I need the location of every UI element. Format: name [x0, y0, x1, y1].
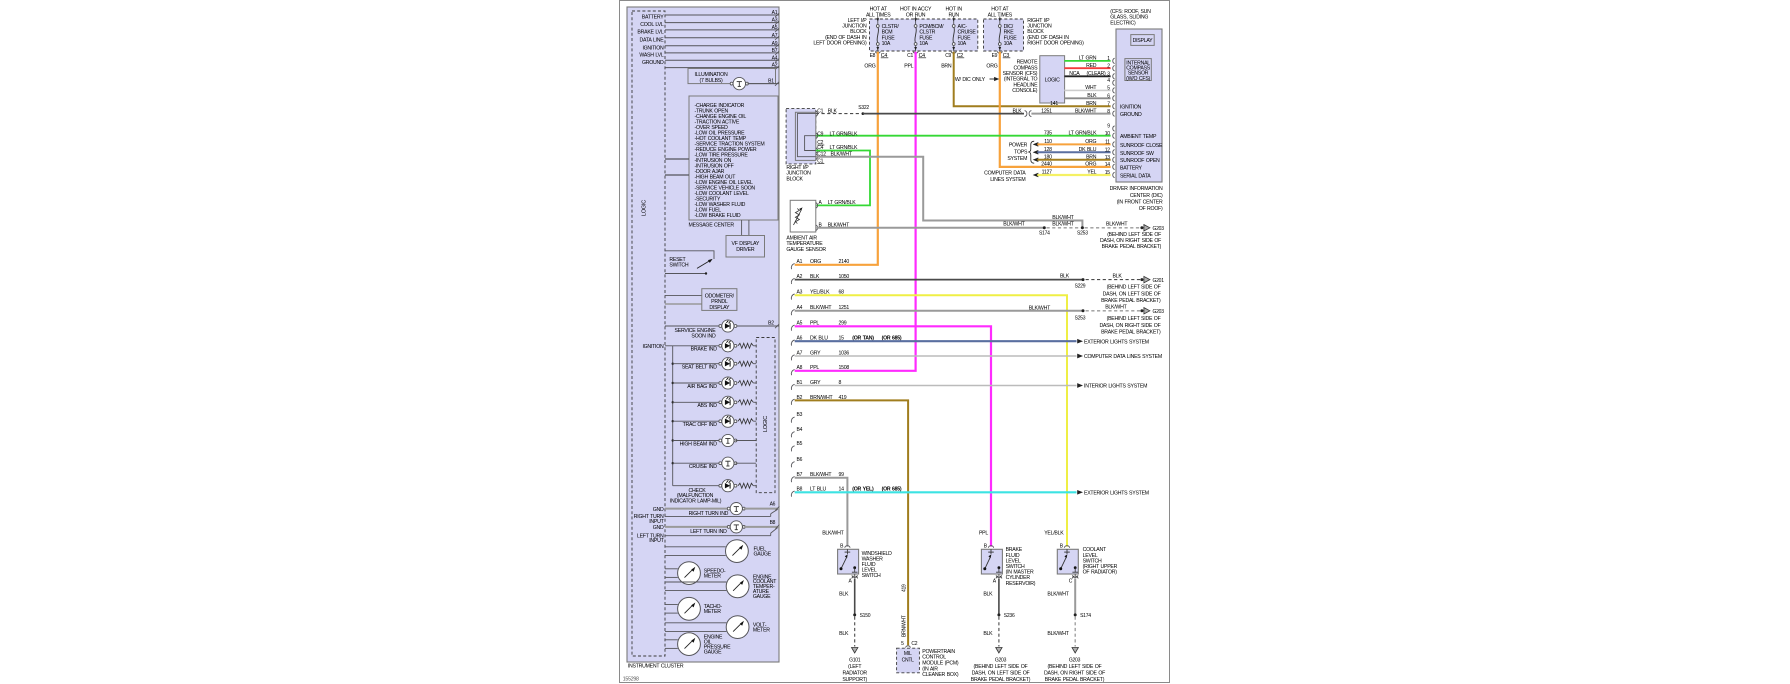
svg-text:BLK: BLK [828, 108, 838, 114]
wire BLKWHT coolant switch to S174 G203 [1047, 578, 1091, 653]
left ip junction block box [870, 19, 978, 51]
label driver information center [1110, 186, 1163, 212]
wire BLKWHT A4 to S253 G203 [791, 304, 1164, 321]
label ORG fuse4 [986, 64, 997, 70]
LED brake ind [673, 340, 757, 353]
label hot at all times left [866, 7, 891, 19]
svg-text:DATA LINE: DATA LINE [640, 37, 665, 43]
labels DIC internal nets [1120, 105, 1163, 180]
svg-text:LT GRN/BLK: LT GRN/BLK [828, 200, 857, 206]
connector pin B5 [791, 441, 802, 452]
svg-text:DASH, ON LEFT SIDE OF: DASH, ON LEFT SIDE OF [972, 671, 1030, 677]
labels right ip junction block pins [817, 108, 858, 164]
label instrument cluster [628, 664, 684, 670]
svg-text:BLK: BLK [1012, 109, 1022, 115]
svg-text:BRAKE PEDAL BRACKET): BRAKE PEDAL BRACKET) [971, 677, 1031, 683]
wire cluster pin A1 [665, 10, 779, 17]
svg-text:B5: B5 [797, 441, 803, 447]
label G101 address [842, 657, 867, 683]
svg-text:INDICATOR LAMP-MIL): INDICATOR LAMP-MIL) [670, 499, 722, 505]
svg-text:B7: B7 [772, 48, 778, 54]
wire cluster pin A2 [665, 63, 779, 70]
label computer data lines system top [984, 171, 1026, 184]
svg-text:S253: S253 [1077, 231, 1088, 237]
svg-text:BLK/WHT: BLK/WHT [1052, 215, 1074, 221]
label LOGIC (ind) [763, 416, 769, 432]
LED seat belt ind [673, 358, 757, 371]
svg-text:GAUGE: GAUGE [704, 649, 722, 655]
svg-text:HIGH BEAM IND: HIGH BEAM IND [680, 441, 718, 447]
svg-text:(IN FRONT CENTER: (IN FRONT CENTER [1117, 199, 1163, 205]
wire PPL fuse2 to A8 [795, 52, 916, 371]
svg-text:GAUGE: GAUGE [754, 551, 772, 557]
wire RED logic pin2 [1064, 63, 1110, 69]
svg-text:BLK: BLK [1113, 273, 1123, 279]
wire cluster pin A3 [665, 18, 779, 25]
svg-text:INSTRUMENT CLUSTER: INSTRUMENT CLUSTER [628, 664, 684, 670]
svg-text:TOPS: TOPS [1014, 149, 1028, 155]
wire WHT logic pin5 [1064, 85, 1110, 91]
svg-text:COMPUTER DATA LINES SYSTEM: COMPUTER DATA LINES SYSTEM [1084, 354, 1162, 360]
svg-text:BRAKE PEDAL BRACKET): BRAKE PEDAL BRACKET) [1101, 329, 1161, 335]
svg-text:10A: 10A [958, 41, 967, 47]
svg-text:SUNROOF CLOSE: SUNROOF CLOSE [1120, 143, 1163, 149]
svg-text:S229: S229 [1075, 284, 1086, 290]
logic box U1 [1040, 56, 1065, 103]
svg-text:RADIATOR: RADIATOR [843, 671, 868, 677]
svg-text:SUNROOF SW: SUNROOF SW [1120, 151, 1154, 157]
coolant level switch [1057, 544, 1117, 585]
svg-text:DRIVER INFORMATION: DRIVER INFORMATION [1110, 186, 1163, 192]
gauge speedo- [665, 562, 726, 585]
svg-text:LOGIC: LOGIC [642, 200, 648, 216]
wire cluster pin A4 [665, 55, 779, 62]
svg-text:MIL: MIL [904, 651, 912, 657]
fuse A/C-CRUISE 10A [945, 17, 976, 59]
svg-text:B8: B8 [770, 520, 776, 526]
wire LT GRNBLK 735 to pin10 [816, 130, 1111, 136]
label PPL above brake switch [979, 531, 988, 537]
svg-text:G201: G201 [1153, 278, 1165, 284]
wire LT BLU B8 exterior lights [791, 487, 1149, 497]
gauge volt- [665, 616, 770, 639]
svg-text:CONSOLE): CONSOLE) [1012, 88, 1038, 94]
svg-text:10A: 10A [1004, 41, 1013, 47]
svg-text:G203: G203 [1153, 226, 1165, 232]
svg-text:BLK: BLK [983, 631, 993, 637]
svg-text:SUPPORT): SUPPORT) [842, 677, 867, 683]
vf display driver box [726, 220, 765, 257]
sheet number [623, 677, 639, 683]
bulb illumination [730, 77, 779, 89]
svg-text:ORG: ORG [1085, 162, 1096, 168]
LED service engine soon ind [665, 320, 779, 340]
svg-text:METER: METER [753, 627, 770, 633]
wire cluster pin B7 [665, 48, 779, 55]
bulb high beam ind [673, 434, 757, 447]
svg-text:LT GRN/BLK: LT GRN/BLK [1069, 130, 1098, 136]
LED trac off ind [673, 415, 757, 428]
svg-text:BLK/WHT: BLK/WHT [1105, 304, 1127, 310]
svg-text:BRN/WHT: BRN/WHT [901, 615, 907, 637]
gauge tacho- [665, 597, 722, 620]
svg-text:12: 12 [1105, 148, 1111, 154]
svg-text:YEL/BLK: YEL/BLK [1044, 531, 1064, 537]
wire BRN fuse3 to DIC pin7 [954, 52, 1111, 106]
svg-text:CENTER (DIC): CENTER (DIC) [1130, 193, 1163, 199]
svg-text:BLK/WHT: BLK/WHT [822, 531, 844, 537]
wire DK BLU A6 exterior lights [791, 336, 1149, 346]
wire GRY B1 interior lights [791, 380, 1147, 390]
wire LT GRN logic pin1 [1064, 56, 1110, 62]
svg-text:RIGHT DOOR OPENING): RIGHT DOOR OPENING) [1027, 41, 1084, 47]
svg-text:PPL: PPL [904, 64, 913, 70]
svg-text:BRAKE PEDAL BRACKET): BRAKE PEDAL BRACKET) [1102, 244, 1162, 250]
svg-text:DRIVER: DRIVER [736, 247, 755, 253]
svg-text:1127: 1127 [1042, 170, 1053, 176]
label hot in accy or run [900, 7, 932, 19]
svg-text:GROUND: GROUND [642, 60, 664, 66]
wire BLK washer to S150 G101 [839, 578, 871, 653]
svg-text:LT GRN: LT GRN [1079, 56, 1097, 62]
svg-text:W/ DIC ONLY: W/ DIC ONLY [955, 77, 986, 83]
svg-text:BLK/WHT: BLK/WHT [1052, 221, 1074, 227]
svg-text:GAUGE SENSOR: GAUGE SENSOR [786, 247, 826, 253]
brake fluid level switch [981, 544, 1035, 587]
logic dashed box [632, 11, 665, 656]
svg-text:ELECTRIC): ELECTRIC) [1110, 20, 1136, 26]
svg-text:BLK: BLK [839, 631, 849, 637]
wire BLKWHT sensor B to S174 S253 G203 [817, 221, 1165, 236]
wire cluster pin A5 [665, 25, 779, 32]
svg-text:BRN: BRN [941, 64, 952, 70]
svg-text:NCA: NCA [1069, 71, 1080, 77]
svg-text:A6: A6 [770, 502, 776, 508]
svg-text:SYSTEM: SYSTEM [1007, 156, 1027, 162]
svg-text:A8: A8 [797, 365, 803, 371]
label right ip junction block 2 [786, 165, 811, 182]
svg-text:AMBIENT TEMP: AMBIENT TEMP [1120, 134, 1157, 140]
svg-text:2140: 2140 [839, 259, 850, 265]
svg-text:METER: METER [704, 573, 721, 579]
wire NCA logic pin3 [1064, 71, 1110, 77]
svg-text:10A: 10A [882, 41, 891, 47]
gauge engine [665, 574, 777, 600]
svg-text:BLOCK: BLOCK [786, 176, 803, 182]
svg-text:S150: S150 [860, 613, 871, 619]
wire YEL 1127 pin15 [1033, 170, 1111, 178]
wire PPL A5 to brake fluid level switch [791, 321, 991, 547]
svg-text:G203: G203 [1153, 309, 1165, 315]
svg-text:LINES SYSTEM: LINES SYSTEM [990, 177, 1025, 183]
wire GRY A7 computer data lines [791, 350, 1162, 360]
label remote compass sensor [1003, 60, 1038, 95]
wire ignition bus [642, 344, 673, 486]
svg-text:SOON IND: SOON IND [691, 334, 716, 340]
svg-text:-LOW BRAKE FLUID: -LOW BRAKE FLUID [695, 213, 741, 219]
svg-text:DK BLU: DK BLU [1079, 147, 1097, 153]
wire ORG fuse4 to DIC pin14 [1000, 52, 1111, 167]
svg-text:METER: METER [704, 609, 721, 615]
svg-text:BLK: BLK [1060, 274, 1070, 280]
svg-text:LT GRN/BLK: LT GRN/BLK [830, 131, 859, 137]
svg-text:WHT: WHT [1085, 85, 1097, 91]
svg-text:LOGIC: LOGIC [763, 416, 769, 432]
svg-text:A4: A4 [772, 55, 778, 61]
wire BLK S322 to pin8 [816, 105, 1111, 117]
svg-text:DASH, ON RIGHT SIDE OF: DASH, ON RIGHT SIDE OF [1099, 323, 1160, 329]
svg-text:EXTERIOR LIGHTS SYSTEM: EXTERIOR LIGHTS SYSTEM [1084, 490, 1149, 496]
reset switch [665, 251, 714, 275]
svg-text:BLK/WHT: BLK/WHT [1047, 631, 1069, 637]
gauge fuel [665, 540, 772, 563]
label ORG fuse1 [864, 64, 875, 70]
svg-text:(7 BULBS): (7 BULBS) [700, 78, 724, 84]
LED check MIL ind [670, 480, 756, 505]
bulb left turn ind [637, 520, 779, 544]
svg-text:(BEHIND LEFT SIDE OF: (BEHIND LEFT SIDE OF [1107, 285, 1161, 291]
svg-text:A1: A1 [797, 259, 803, 265]
svg-text:INPUT: INPUT [649, 538, 664, 544]
svg-text:BLK: BLK [1087, 93, 1097, 99]
svg-text:GND: GND [653, 507, 664, 513]
svg-text:IGNITION: IGNITION [642, 344, 664, 350]
LED abs ind [673, 396, 757, 409]
svg-text:IGNITION: IGNITION [1120, 105, 1142, 111]
svg-text:DASH, ON LEFT SIDE OF: DASH, ON LEFT SIDE OF [1103, 291, 1161, 297]
svg-text:B2: B2 [768, 320, 774, 326]
wire cluster pin A9 [665, 41, 779, 48]
svg-text:(CLEAR): (CLEAR) [1086, 71, 1106, 77]
svg-text:BLK: BLK [839, 592, 849, 598]
label G203 address left [971, 657, 1031, 683]
label 1251 BLKWHT pin8 [1041, 108, 1097, 114]
label hot at all times right [988, 7, 1013, 19]
svg-text:SUNROOF OPEN: SUNROOF OPEN [1120, 158, 1160, 164]
wire YELBLK A3 to coolant level switch [791, 290, 1067, 547]
svg-text:CRUISE IND: CRUISE IND [689, 464, 717, 470]
wire BLK A2 to S229 G201 [791, 273, 1164, 289]
svg-text:INPUT: INPUT [649, 519, 664, 525]
powertrain control module PCM [897, 641, 920, 673]
svg-text:SWITCH: SWITCH [669, 262, 688, 268]
svg-text:ORG: ORG [1085, 139, 1096, 145]
label LOGIC (cluster) [642, 200, 648, 216]
svg-text:TRAC OFF IND: TRAC OFF IND [683, 422, 718, 428]
svg-text:MESSAGE CENTER: MESSAGE CENTER [689, 223, 735, 229]
svg-text:GROUND: GROUND [1120, 112, 1142, 118]
label ambient air temperature gauge sensor [786, 235, 826, 252]
svg-text:BRAKE PEDAL BRACKET): BRAKE PEDAL BRACKET) [1101, 298, 1161, 304]
labels cluster left pins [637, 15, 664, 66]
svg-text:B1: B1 [768, 79, 774, 85]
label G203 address right [1044, 657, 1105, 683]
fuse PCM/BCM/CLSTR 10A [907, 17, 944, 59]
svg-text:IGNITION: IGNITION [642, 45, 664, 51]
svg-text:GND: GND [653, 525, 664, 531]
svg-text:B3: B3 [797, 412, 803, 418]
svg-text:ORG: ORG [986, 64, 997, 70]
connector pin B3 [791, 412, 802, 423]
svg-text:BLK/WHT: BLK/WHT [1047, 592, 1069, 598]
svg-text:BRAKE LVL: BRAKE LVL [637, 30, 663, 36]
svg-text:PPL: PPL [979, 531, 988, 537]
wire message center stubs [665, 159, 689, 175]
internal compass sensor box [1125, 59, 1151, 82]
driver information center box [1116, 29, 1162, 182]
svg-text:15: 15 [1105, 170, 1111, 176]
svg-text:14: 14 [1105, 162, 1111, 168]
svg-text:BRAKE IND: BRAKE IND [691, 347, 718, 353]
svg-text:10: 10 [1105, 131, 1111, 137]
wire BLK logic pin6 [1064, 93, 1110, 99]
svg-text:C1: C1 [907, 53, 913, 59]
svg-text:BLK/WHT: BLK/WHT [1029, 305, 1051, 311]
svg-text:110: 110 [1044, 139, 1052, 145]
svg-text:RED: RED [1086, 63, 1097, 69]
label cfs roof [1110, 9, 1151, 26]
label w dic only [955, 77, 999, 83]
svg-text:A1: A1 [772, 10, 778, 16]
svg-text:2440: 2440 [1041, 162, 1052, 168]
svg-text:POWER: POWER [1009, 142, 1028, 148]
svg-text:DASH, ON RIGHT SIDE OF: DASH, ON RIGHT SIDE OF [1044, 671, 1105, 677]
svg-text:G203: G203 [995, 657, 1007, 663]
instrument cluster box [627, 7, 779, 662]
right ip junction block box (fuse) [984, 19, 1024, 51]
svg-text:INTERIOR LIGHTS SYSTEM: INTERIOR LIGHTS SYSTEM [1084, 384, 1147, 390]
svg-text:C9: C9 [945, 53, 951, 59]
svg-text:S236: S236 [1004, 613, 1015, 619]
svg-text:C2: C2 [911, 641, 917, 647]
connector pin B6 [791, 457, 802, 468]
label power tops system [1007, 141, 1034, 163]
svg-text:A9: A9 [772, 41, 778, 47]
svg-text:B6: B6 [797, 457, 803, 463]
label right ip junction block [1027, 18, 1084, 47]
DIC pin arcs and numbers [1105, 56, 1115, 178]
illumination box [688, 69, 776, 84]
svg-text:BATTERY: BATTERY [642, 15, 664, 21]
svg-text:BLK/WHT: BLK/WHT [1106, 221, 1128, 227]
svg-text:GAUGE: GAUGE [753, 594, 771, 600]
svg-text:A2: A2 [772, 63, 778, 69]
svg-text:BRN: BRN [1086, 154, 1097, 160]
wire PPL A8 to fuse2 [791, 365, 849, 375]
svg-text:COOL LVL: COOL LVL [640, 22, 664, 28]
label G201 address [1101, 285, 1161, 304]
label 2440 ORG pin14 [1041, 162, 1096, 168]
svg-text:B4: B4 [797, 427, 803, 433]
svg-text:S253: S253 [1075, 315, 1086, 321]
ambient air temperature gauge sensor [790, 200, 856, 232]
wire ORG fuse1 to A1 [795, 52, 878, 265]
svg-text:OF RADIATOR): OF RADIATOR) [1083, 570, 1118, 576]
windshield washer fluid level switch [838, 544, 893, 585]
connector row A1 ORG 2140 [791, 259, 849, 269]
label left ip junction block [813, 18, 867, 47]
svg-text:BRN: BRN [1086, 101, 1097, 107]
svg-text:155298: 155298 [623, 677, 639, 683]
svg-text:OF ROOF): OF ROOF) [1139, 206, 1163, 212]
svg-text:LEFT TURN IND: LEFT TURN IND [690, 529, 727, 535]
gauge engine [665, 633, 731, 656]
svg-text:BLK: BLK [983, 592, 993, 598]
svg-text:E9: E9 [992, 53, 998, 59]
svg-text:ALL TIMES: ALL TIMES [866, 12, 891, 18]
svg-text:G203: G203 [1069, 657, 1081, 663]
label G203 address mid [1099, 316, 1161, 335]
svg-text:180: 180 [1044, 154, 1052, 160]
svg-text:LOGIC: LOGIC [1045, 78, 1060, 84]
label PPL fuse2 [904, 64, 913, 70]
svg-text:G101: G101 [849, 657, 861, 663]
svg-text:1508: 1508 [839, 365, 850, 371]
svg-text:YEL: YEL [1087, 170, 1096, 176]
svg-text:C1: C1 [817, 108, 823, 114]
svg-text:11: 11 [1105, 140, 1110, 146]
svg-text:141: 141 [1050, 101, 1058, 107]
fuse CLSTR/BCM 10A [870, 17, 900, 59]
label hot in run [945, 7, 962, 19]
svg-text:SWITCH: SWITCH [862, 573, 881, 579]
svg-text:A3: A3 [772, 18, 778, 24]
message center box [689, 96, 779, 229]
svg-text:419: 419 [901, 584, 907, 592]
svg-text:CLEANER BOX): CLEANER BOX) [922, 672, 959, 678]
wire BLKWHT C12 [816, 157, 1083, 228]
svg-text:DISPLAY: DISPLAY [1133, 38, 1154, 44]
logic dashed box right [756, 338, 775, 493]
svg-text:SERIAL DATA: SERIAL DATA [1120, 174, 1151, 180]
svg-text:C9: C9 [817, 131, 823, 137]
svg-text:(BEHIND LEFT SIDE OF: (BEHIND LEFT SIDE OF [1107, 316, 1161, 322]
label powertrain control module [922, 649, 959, 678]
svg-text:128: 128 [1044, 147, 1052, 153]
svg-text:S174: S174 [1039, 231, 1050, 237]
svg-text:(BEHIND LEFT SIDE OF: (BEHIND LEFT SIDE OF [974, 664, 1028, 670]
wire cluster pin A7 [665, 33, 779, 40]
svg-text:COMPUTER DATA: COMPUTER DATA [984, 171, 1026, 177]
display box [1131, 35, 1154, 46]
svg-text:ABS IND: ABS IND [697, 403, 717, 409]
svg-text:RESERVOIR): RESERVOIR) [1006, 581, 1036, 587]
svg-text:WASH LVL: WASH LVL [639, 53, 663, 59]
svg-text:BLK/WHT: BLK/WHT [1003, 221, 1025, 227]
svg-text:13: 13 [1105, 155, 1111, 161]
svg-text:LEFT DOOR OPENING): LEFT DOOR OPENING) [813, 41, 867, 47]
svg-text:S174: S174 [1080, 613, 1091, 619]
svg-text:CNTL: CNTL [902, 657, 915, 663]
odometer prndl display box [665, 289, 737, 311]
svg-text:SEAT BELT IND: SEAT BELT IND [682, 365, 718, 371]
fuse DIC/RKE 10A [992, 17, 1018, 59]
svg-text:AIR BAG IND: AIR BAG IND [687, 384, 717, 390]
label BRN fuse3 [941, 64, 952, 70]
wire BRNWHT B2 to PCM [791, 395, 908, 645]
bulb right turn ind [634, 502, 780, 525]
svg-text:BRAKE PEDAL BRACKET): BRAKE PEDAL BRACKET) [1045, 677, 1105, 683]
right ip junction block box [786, 109, 818, 164]
bulb cruise ind [673, 457, 757, 470]
svg-text:E8: E8 [870, 53, 876, 59]
connector pin B4 [791, 427, 802, 438]
svg-text:DISPLAY: DISPLAY [709, 305, 730, 311]
svg-text:(LEFT: (LEFT [848, 664, 862, 670]
LED air bag ind [673, 377, 757, 390]
label 141 BRN pin7 [1050, 101, 1097, 107]
svg-text:10A: 10A [919, 41, 928, 47]
